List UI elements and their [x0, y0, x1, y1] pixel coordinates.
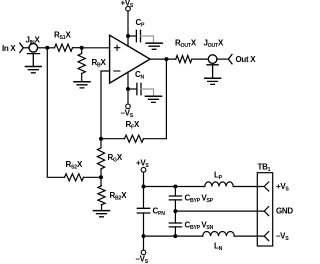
wire node F down to CBYP: [174, 187, 176, 197]
node E junction (top rail left): [142, 185, 146, 189]
wire bottom rail to -VS terminal: [143, 236, 145, 250]
node F junction (top rail mid): [173, 185, 177, 189]
svg-text:–VS: –VS: [276, 232, 289, 243]
wire op-amp output to JOUT: [150, 58, 176, 60]
svg-text:CP: CP: [136, 18, 145, 29]
svg-text:TB1: TB1: [258, 163, 271, 174]
wire chevron to JIN: [23, 47, 29, 49]
resistor RBX: [78, 54, 85, 74]
node I junction (bottom rail mid): [173, 234, 177, 238]
wire JIN to node A: [38, 47, 48, 49]
ground (under JIN): [28, 54, 40, 67]
wire node G to CBYN: [174, 211, 176, 223]
capacitor CBYP (VSN): [169, 223, 181, 227]
svg-text:RS2X: RS2X: [66, 160, 83, 171]
output chevron: [228, 54, 232, 63]
svg-text:Out X: Out X: [236, 55, 257, 64]
connector JIN X: [29, 44, 38, 53]
svg-text:RBX: RBX: [92, 58, 107, 69]
node A junction: [45, 46, 49, 50]
node H junction (bottom rail left): [142, 234, 146, 238]
ground (under RB2): [94, 210, 110, 212]
wire RS2 to node D: [84, 176, 102, 178]
terminal +VS circle (power): [141, 167, 146, 172]
node G junction (GND): [173, 209, 177, 213]
node D junction: [99, 175, 103, 179]
wire bottom rail to LN: [144, 235, 203, 237]
svg-text:+VS: +VS: [121, 0, 134, 9]
svg-text:CBYP VSN: CBYP VSN: [185, 221, 214, 232]
resistor RB2X: [98, 186, 105, 205]
wire RB to ground: [81, 74, 83, 82]
terminal -VS circle: [126, 104, 131, 109]
output node junction: [164, 57, 168, 61]
svg-text:JOUTX: JOUTX: [204, 39, 225, 50]
wire CBYP to GND node: [174, 200, 176, 211]
svg-text:CBYP VSP: CBYP VSP: [185, 194, 214, 205]
wire +VS to op-amp top: [127, 11, 129, 46]
terminal +VS circle: [126, 6, 131, 11]
node B junction: [80, 46, 84, 50]
wire RG to node D: [100, 169, 102, 178]
capacitor CN: [137, 83, 141, 94]
wire LP to TB1: [233, 186, 264, 188]
capacitor CP: [136, 30, 140, 41]
wire CP to ground (gray): [141, 36, 154, 43]
wire junction to CP: [128, 35, 136, 37]
capacitor CPN: [137, 208, 149, 213]
junction on -VS wire: [126, 87, 130, 91]
TB1 chevron pin 2: [264, 207, 269, 216]
svg-text:–VS: –VS: [121, 109, 134, 120]
wire node A to RS1: [47, 47, 54, 49]
connector JOUT X: [208, 55, 217, 64]
wire node C to op-amp - input: [101, 71, 110, 139]
wire CPN to bottom rail: [143, 213, 145, 236]
op-amp + pin mark: [114, 45, 119, 50]
svg-text:JINX: JINX: [26, 36, 41, 47]
TB1 chevron pin 1: [264, 182, 269, 191]
wire RB2 to ground: [101, 205, 103, 211]
op-amp U1: [110, 35, 150, 83]
inductor LP: [205, 182, 233, 187]
wire LN to TB1: [234, 235, 264, 237]
svg-text:RFX: RFX: [126, 120, 140, 131]
svg-text:RS1X: RS1X: [54, 31, 71, 42]
svg-text:ROUTX: ROUTX: [175, 39, 197, 50]
wire ROUT to JOUT: [192, 58, 209, 60]
svg-text:GND: GND: [276, 207, 293, 216]
terminal -VS circle (power): [141, 250, 146, 255]
capacitor CBYP (VSP): [169, 196, 181, 200]
ground (under RB): [74, 81, 90, 83]
terminal block TB1: [257, 173, 272, 246]
ground (CN): [145, 95, 161, 97]
wire top rail to LP: [144, 186, 205, 188]
ground (CP): [146, 42, 162, 44]
wire node A down and to RS2: [47, 48, 64, 178]
ground (under JOUT): [207, 65, 218, 79]
inductor LN: [203, 232, 235, 237]
wire op-amp bottom to -VS: [127, 72, 129, 104]
wire node B down to RB: [81, 48, 83, 54]
wire RF to node C: [101, 138, 125, 140]
wire CBYN to bottom rail: [174, 227, 176, 236]
svg-text:+VS: +VS: [276, 182, 289, 193]
svg-text:LP: LP: [214, 171, 223, 182]
wire JOUT to output chevron: [217, 58, 228, 60]
wire GND rail to TB1: [175, 210, 264, 212]
resistor RFX: [125, 135, 144, 142]
wire junction to CN: [128, 88, 137, 90]
svg-text:In X: In X: [2, 44, 16, 53]
resistor ROUTX: [176, 56, 192, 63]
svg-text:RGX: RGX: [108, 153, 123, 164]
input chevron: [20, 43, 24, 52]
svg-text:CN: CN: [135, 70, 144, 81]
resistor RGX: [97, 148, 104, 169]
node C junction: [99, 137, 103, 141]
svg-text:–VS: –VS: [136, 254, 149, 264]
wire output node down to RF: [144, 59, 167, 139]
wire +VS down left rail: [143, 172, 145, 208]
svg-text:RB2X: RB2X: [110, 191, 128, 202]
svg-text:LN: LN: [214, 242, 223, 253]
wire RS1 to node B: [73, 47, 82, 49]
resistor RS1X: [55, 44, 73, 51]
resistor RS2X: [65, 174, 84, 181]
TB1 chevron pin 3: [264, 232, 269, 241]
wire node C to RG: [100, 139, 102, 148]
wire CN to ground (gray): [141, 89, 154, 96]
svg-text:CPN: CPN: [153, 207, 166, 218]
wire node B to op-amp + input: [82, 47, 110, 49]
op-amp - pin mark: [114, 70, 120, 72]
wire node D to RB2: [100, 177, 102, 186]
junction on +VS wire: [126, 34, 130, 38]
